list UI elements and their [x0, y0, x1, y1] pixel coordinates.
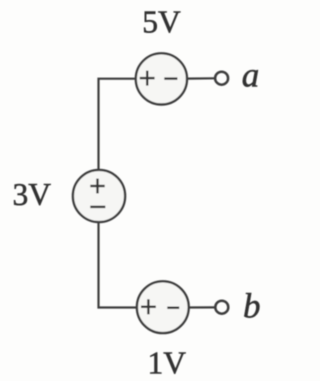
svg-text:1V: 1V: [148, 346, 187, 381]
svg-text:3V: 3V: [13, 177, 52, 212]
svg-text:a: a: [242, 55, 259, 94]
svg-text:5V: 5V: [142, 5, 181, 40]
svg-text:b: b: [243, 286, 261, 325]
